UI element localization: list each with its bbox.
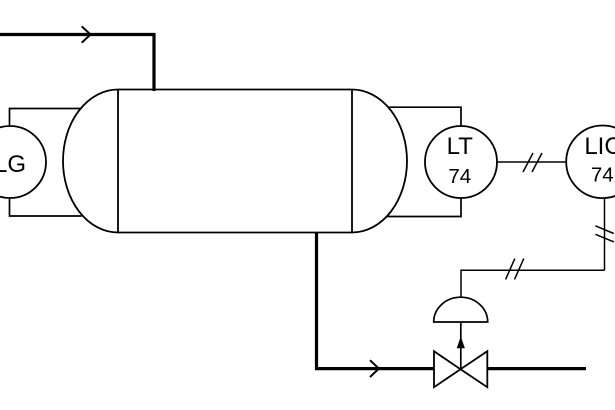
control valve body left triangle	[434, 351, 461, 387]
wire: signal to valve actuator	[461, 270, 605, 297]
svg-text:LIC: LIC	[584, 133, 615, 160]
wire: LT upper nozzle line	[388, 107, 461, 126]
signal slash marks (horizontal run)	[506, 259, 524, 280]
instrument LT 74 circle	[425, 126, 497, 198]
control valve body right triangle	[461, 351, 488, 387]
instrument LIC 74 circle	[566, 126, 615, 199]
svg-text:LT: LT	[447, 133, 474, 160]
wire: bottom outlet pipe (thick)	[317, 233, 436, 369]
svg-text:LG: LG	[0, 151, 26, 178]
flow arrow on bottom pipe	[370, 360, 379, 377]
wire: signal LIC down (vertical)	[604, 198, 606, 270]
signal slash marks (vertical run)	[595, 226, 614, 242]
signal slash marks (LT-LIC)	[523, 153, 542, 172]
wire: LG lower nozzle line	[10, 198, 82, 216]
wire: pipe after valve (thick)	[486, 367, 586, 370]
vessel left head	[63, 90, 118, 233]
wire: LT lower nozzle line	[387, 198, 461, 217]
wire: LG upper nozzle line	[10, 109, 81, 127]
svg-text:74: 74	[591, 164, 614, 187]
vessel V-1 horizontal drum body	[118, 90, 352, 233]
wire: top feed pipe (thick)	[0, 35, 154, 92]
valve actuator diaphragm dome	[434, 297, 488, 322]
svg-text:74: 74	[448, 165, 471, 188]
flow arrow on top feed pipe	[82, 26, 91, 42]
vessel right head	[352, 90, 407, 233]
wire: electronic signal LT to LIC	[497, 161, 566, 163]
stem arrow (up)	[457, 337, 465, 349]
valve stem	[460, 322, 462, 369]
instrument LG circle	[0, 126, 46, 198]
